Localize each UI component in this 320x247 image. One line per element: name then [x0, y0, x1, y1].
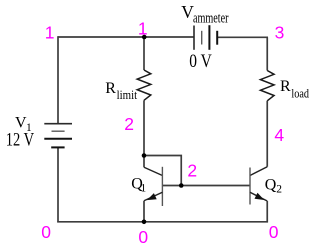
svg-text:Q: Q [265, 177, 277, 194]
node dot ground [142, 220, 147, 225]
wire node2 loop [144, 156, 181, 186]
svg-text:ammeter: ammeter [193, 11, 229, 27]
transistor Q1 [144, 156, 162, 223]
node dot top (node 1) [142, 35, 147, 40]
svg-text:R: R [105, 80, 116, 97]
resistor Rlimit [137, 37, 151, 156]
node dot base bus [179, 183, 184, 188]
svg-text:4: 4 [274, 125, 284, 145]
svg-text:0 V: 0 V [189, 51, 212, 72]
wire bottom rail [57, 221, 268, 223]
wire left vertical upper [57, 36, 59, 123]
battery V1 [44, 124, 72, 148]
battery Vammeter [194, 25, 217, 50]
svg-text:load: load [291, 86, 309, 100]
transistor Q2 [250, 167, 267, 223]
svg-text:1: 1 [45, 23, 55, 43]
svg-text:2: 2 [187, 161, 197, 181]
svg-text:3: 3 [275, 23, 285, 43]
wire left vertical lower [57, 148, 59, 223]
svg-text:0: 0 [138, 227, 148, 247]
svg-text:2: 2 [276, 184, 282, 196]
svg-text:12 V: 12 V [6, 129, 35, 150]
svg-text:0: 0 [269, 222, 279, 242]
wire top left [58, 36, 195, 38]
wire top right [217, 36, 268, 38]
node dot node 2 top [142, 153, 147, 158]
svg-text:R: R [280, 78, 291, 95]
wire base bus [162, 185, 250, 187]
svg-text:limit: limit [117, 88, 138, 102]
svg-text:1: 1 [141, 183, 147, 195]
svg-text:2: 2 [124, 114, 134, 134]
resistor Rload [260, 37, 274, 166]
svg-text:1: 1 [138, 18, 148, 38]
svg-text:0: 0 [41, 222, 51, 242]
